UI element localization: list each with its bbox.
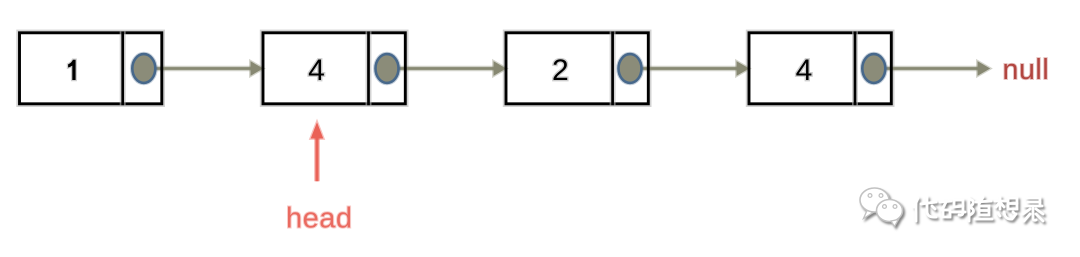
node 3 value label "2" bbox=[552, 54, 569, 87]
wire arrow 4 bbox=[885, 61, 990, 75]
big bubble tail bbox=[864, 211, 874, 219]
watermark logo: two chat bubbles bbox=[860, 188, 903, 227]
small bubble tail bbox=[891, 220, 899, 227]
wire arrow 3 bbox=[642, 61, 750, 75]
node 3 pointer circle bbox=[619, 54, 642, 83]
node 4 pointer circle bbox=[862, 54, 885, 83]
node 1 divider bbox=[120, 32, 126, 106]
wire arrow 1 bbox=[155, 61, 263, 75]
node 1 box border bbox=[20, 33, 162, 104]
head arrow (red, points up at node 2) bbox=[311, 123, 323, 182]
watermark char DAI bbox=[914, 197, 936, 221]
node 4 divider bbox=[852, 32, 858, 106]
watermark char MA bbox=[940, 200, 965, 217]
watermark char LU bbox=[1023, 198, 1043, 221]
svg-text:2: 2 bbox=[552, 54, 569, 87]
null label bbox=[1003, 54, 1050, 86]
big bubble bbox=[860, 188, 889, 212]
svg-text:head: head bbox=[286, 203, 353, 235]
small bubble bbox=[877, 200, 903, 222]
node 2 divider bbox=[366, 32, 372, 106]
node 4 box fill and halo bbox=[749, 33, 891, 104]
node 3 box border bbox=[506, 33, 648, 104]
node 4 value label "4" bbox=[796, 54, 813, 87]
svg-text:4: 4 bbox=[308, 54, 325, 87]
node 2 box fill and halo bbox=[263, 33, 405, 104]
node 2 box border bbox=[263, 33, 405, 104]
node 1 value label "1" bbox=[68, 60, 76, 80]
node 1 box fill and halo bbox=[20, 33, 162, 104]
node 4 box border bbox=[749, 33, 891, 104]
watermark char XIANG bbox=[995, 197, 1017, 219]
node 3 divider bbox=[610, 32, 616, 106]
node 1 pointer circle bbox=[132, 54, 155, 83]
wire arrow 2 bbox=[399, 61, 507, 75]
watermark char SUI bbox=[969, 197, 992, 221]
head label bbox=[286, 203, 353, 235]
node 3 box fill and halo bbox=[506, 33, 648, 104]
node 2 value label "4" bbox=[308, 54, 325, 87]
big bubble eyes bbox=[868, 194, 872, 198]
svg-text:null: null bbox=[1003, 54, 1050, 86]
watermark text "代码随想录" drawn as strokes bbox=[914, 197, 1043, 221]
small bubble eyes bbox=[883, 205, 887, 209]
svg-text:4: 4 bbox=[796, 54, 813, 87]
node 2 pointer circle bbox=[376, 54, 399, 83]
